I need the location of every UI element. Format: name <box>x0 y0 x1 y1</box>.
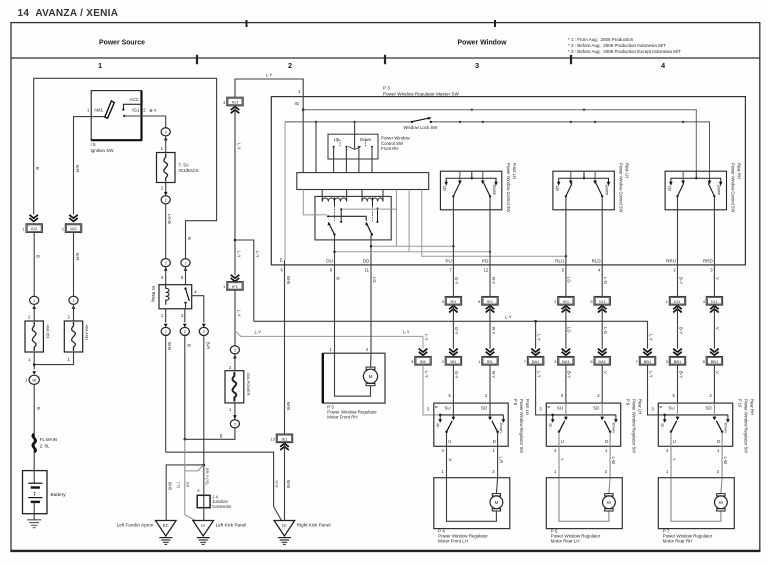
connector chevron <box>562 306 571 309</box>
svg-text:2: 2 <box>184 261 186 265</box>
wire bypass *2 <box>185 465 204 471</box>
legs to rail <box>333 148 335 173</box>
svg-text:B: B <box>220 434 223 439</box>
svg-text:L-O: L-O <box>603 277 608 285</box>
connector circle 2 coil <box>161 259 170 267</box>
output wires <box>558 432 560 478</box>
connector 13 IE1 <box>276 434 292 443</box>
svg-text:P 9: P 9 <box>626 399 631 406</box>
svg-text:B-R: B-R <box>205 342 210 349</box>
battery cells <box>33 471 35 484</box>
svg-text:Rear RH: Rear RH <box>750 399 755 415</box>
wire B-Y <box>677 265 679 297</box>
svg-text:L-W: L-W <box>611 457 616 465</box>
svg-text:M: M <box>607 500 611 505</box>
svg-text:W-B: W-B <box>286 276 291 284</box>
connector 3 BA1 <box>558 357 574 366</box>
wire L-Y below <box>535 365 537 403</box>
svg-text:BA1: BA1 <box>532 359 540 364</box>
svg-text:IE1: IE1 <box>281 436 288 441</box>
connector chevron below IG1 <box>231 107 240 110</box>
svg-text:B-Y: B-Y <box>150 108 157 113</box>
wire G-Y below <box>452 365 454 403</box>
connector 1 IG1 <box>669 297 685 306</box>
svg-text:30A POWER: 30A POWER <box>246 373 251 396</box>
blades <box>453 183 459 196</box>
svg-text:2: 2 <box>165 330 167 334</box>
svg-text:R-Y: R-Y <box>491 277 496 284</box>
connector chevron into fuse ID2 no1 <box>29 215 38 218</box>
contact blades <box>348 146 354 149</box>
svg-text:Up: Up <box>436 423 441 429</box>
svg-text:L-Y: L-Y <box>255 330 262 335</box>
svg-text:Rear LH: Rear LH <box>625 163 630 178</box>
svg-text:11: 11 <box>365 268 370 273</box>
svg-text:IA: IA <box>201 523 205 528</box>
relay IG Relay box <box>159 285 192 309</box>
connector circle 2 <box>230 420 239 428</box>
motor inner wires <box>671 478 721 522</box>
cross line <box>559 178 609 184</box>
svg-text:IG1: IG1 <box>599 299 606 304</box>
wire join 40A outputs <box>33 352 35 370</box>
svg-text:* 3 : Before Aug. 2006 Produc: * 3 : Before Aug. 2006 Production Except… <box>568 49 681 54</box>
wire L-Y down <box>234 106 236 275</box>
motor symbol M <box>605 494 613 496</box>
relay contact <box>184 287 186 289</box>
svg-text:Up: Up <box>667 186 672 192</box>
wire AM1 feed from ignition <box>74 117 105 215</box>
svg-text:IG1: IG1 <box>232 100 239 105</box>
svg-text:Power Window Control SW: Power Window Control SW <box>506 163 511 213</box>
SU SD wires with arrows <box>452 403 454 418</box>
junction connector J4 <box>197 495 210 507</box>
ignition switch I5 box <box>91 91 141 141</box>
motor inner wires <box>559 478 609 522</box>
output wires <box>565 196 567 265</box>
connector circle 2 W-B <box>161 327 170 335</box>
connector 3 BB1 <box>669 357 685 366</box>
fuse 7.5A IG1/BACK <box>157 153 176 183</box>
SU SD wires with arrows <box>565 403 567 418</box>
wire L-Y gray to IB1 <box>422 336 424 348</box>
svg-text:7. 5A: 7. 5A <box>179 163 189 168</box>
svg-text:BB1: BB1 <box>711 359 719 364</box>
svg-text:L-Y: L-Y <box>536 371 541 378</box>
svg-text:L-Y: L-Y <box>648 334 653 341</box>
svg-text:V: V <box>603 371 608 374</box>
blades <box>566 183 572 196</box>
feed arrows <box>32 305 36 309</box>
svg-text:LG: LG <box>372 277 377 283</box>
connector chevron <box>598 349 607 352</box>
output wires <box>670 432 672 478</box>
feed arrow <box>233 415 237 419</box>
connector chevron <box>531 349 540 352</box>
wire L-Y elbow into P9 <box>536 402 553 415</box>
svg-text:Front LH: Front LH <box>525 399 530 415</box>
svg-text:M: M <box>495 500 499 505</box>
svg-text:SD: SD <box>481 405 488 410</box>
svg-text:IG1: IG1 <box>711 299 718 304</box>
blades <box>678 183 684 196</box>
connector circle 2 <box>230 346 239 354</box>
svg-text:1: 1 <box>33 299 35 303</box>
fuse 40A ID1 <box>25 321 43 352</box>
svg-text:D: D <box>717 439 720 444</box>
wire L-O below <box>601 365 603 403</box>
svg-text:3: 3 <box>475 61 479 70</box>
leg from bus B to rail <box>315 122 317 173</box>
svg-text:ID2: ID2 <box>31 226 38 231</box>
svg-text:EC: EC <box>163 523 169 528</box>
connector circle SB <box>29 375 39 384</box>
svg-text:L-Y: L-Y <box>266 72 273 77</box>
connector chevron <box>710 306 719 309</box>
svg-text:IE1: IE1 <box>487 299 494 304</box>
fusible link FL MAIN 2.0L <box>33 434 36 452</box>
svg-text:W-B: W-B <box>286 480 291 488</box>
svg-text:E: E <box>280 258 283 263</box>
svg-text:G-Y: G-Y <box>454 371 459 379</box>
svg-text:BA1: BA1 <box>562 359 570 364</box>
wire L-Y riser to window rail <box>235 240 254 321</box>
wire to EC ground <box>166 465 204 521</box>
svg-text:M: M <box>369 374 373 379</box>
gray mesh to output wires <box>303 190 327 215</box>
wire E gray inside <box>284 122 286 260</box>
output wires <box>677 196 679 265</box>
svg-text:W-B: W-B <box>167 342 172 350</box>
wire V <box>713 265 715 297</box>
svg-text:Connector: Connector <box>212 504 232 509</box>
svg-text:Motor Front RH: Motor Front RH <box>327 415 357 420</box>
svg-text:SU: SU <box>668 405 674 410</box>
svg-text:Down: Down <box>499 423 504 433</box>
svg-text:B-Y: B-Y <box>567 371 572 378</box>
wire L-Y dark rail <box>254 321 648 348</box>
svg-text:Up: Up <box>443 186 448 192</box>
connector circle 2 contact <box>181 259 190 267</box>
bus line A <box>303 110 696 172</box>
wire IG inside <box>302 97 304 173</box>
svg-text:L-Y: L-Y <box>424 371 429 378</box>
svg-text:ID2: ID2 <box>70 226 77 231</box>
svg-text:2: 2 <box>203 330 205 334</box>
wire common feed <box>354 122 356 149</box>
relay coil down <box>361 190 363 202</box>
rail stubs Up Down <box>552 415 554 420</box>
svg-text:Down: Down <box>605 185 610 196</box>
svg-text:B: B <box>35 167 40 170</box>
svg-text:SU: SU <box>557 405 563 410</box>
connector 2 ID2 <box>65 224 81 233</box>
svg-text:BR-Y (*2): BR-Y (*2) <box>205 468 210 485</box>
svg-text:Front RH: Front RH <box>381 146 398 151</box>
connector 7 BB1 <box>639 357 655 366</box>
motor symbol M <box>717 494 725 496</box>
svg-text:L-W: L-W <box>723 457 728 465</box>
relay assembly box <box>315 196 391 240</box>
svg-text:L-Y: L-Y <box>505 315 512 320</box>
svg-text:Down: Down <box>492 185 497 196</box>
svg-text:B: B <box>434 406 439 409</box>
svg-text:B: B <box>547 406 552 409</box>
entry wires <box>682 171 684 183</box>
svg-text:Power Window Regulator SW: Power Window Regulator SW <box>632 399 637 453</box>
connector 7 BA1 <box>527 357 543 366</box>
svg-text:Up: Up <box>334 137 340 142</box>
svg-text:AM1: AM1 <box>94 108 104 113</box>
contact blades <box>559 421 565 432</box>
svg-text:IE1: IE1 <box>450 299 457 304</box>
feed arrows into circles <box>164 324 168 328</box>
connector chevron <box>449 349 458 352</box>
svg-text:B-Y: B-Y <box>678 327 683 334</box>
svg-text:Window Lock SW: Window Lock SW <box>404 125 439 130</box>
connector 8 BB1 <box>706 357 722 366</box>
svg-text:L-Y: L-Y <box>236 310 241 317</box>
svg-text:V: V <box>715 277 720 280</box>
svg-text:* 2 : Before Aug. 2006 Produc: * 2 : Before Aug. 2006 Production Indone… <box>568 43 666 48</box>
svg-text:BR: BR <box>186 482 191 488</box>
wire L-O <box>601 265 603 297</box>
connector circle 2 B <box>180 327 189 335</box>
inner rail <box>440 414 503 416</box>
svg-text:PD: PD <box>482 259 489 264</box>
svg-text:* 1 : From Aug. 2006 Producti: * 1 : From Aug. 2006 Production <box>568 37 634 42</box>
ground IC Right Kick Panel <box>274 521 295 537</box>
relay coil <box>166 285 169 305</box>
motor P 6 box <box>546 478 622 529</box>
svg-text:RLD: RLD <box>592 259 602 264</box>
svg-text:B: B <box>36 407 41 410</box>
wire V below <box>713 365 715 403</box>
bus line B <box>285 121 412 123</box>
junction node L-Y branch <box>234 239 237 242</box>
svg-text:40A ID1: 40A ID1 <box>45 325 50 340</box>
svg-text:2: 2 <box>165 261 167 265</box>
wire LG-B <box>165 204 167 258</box>
fuse 40A AM1 <box>64 321 82 352</box>
motor symbol M <box>366 367 375 369</box>
svg-text:2: 2 <box>184 330 186 334</box>
svg-text:Control SW: Control SW <box>381 141 404 146</box>
control switch Front LH box <box>440 171 501 210</box>
connector 1 ID2 <box>26 224 42 233</box>
svg-text:Power Source: Power Source <box>99 40 145 47</box>
svg-text:I 5: I 5 <box>91 142 97 147</box>
svg-text:Down: Down <box>360 137 372 142</box>
wire B below ID2 <box>33 232 35 295</box>
svg-text:Left Kick Panel: Left Kick Panel <box>216 523 247 528</box>
svg-text:FL MAIN: FL MAIN <box>40 437 57 442</box>
svg-text:B-Y: B-Y <box>678 371 683 378</box>
wire LG <box>565 265 567 297</box>
relay blades <box>328 222 334 234</box>
wire R-Y <box>489 265 491 297</box>
rail stubs Up Down <box>439 415 441 420</box>
regulator switch P 8 box <box>434 403 508 446</box>
output wires <box>446 432 448 478</box>
svg-text:IG1: IG1 <box>674 299 681 304</box>
connector chevron below IE1 <box>280 443 289 446</box>
connector circle 2 <box>161 196 170 204</box>
svg-text:SD: SD <box>593 405 600 410</box>
svg-text:L-Y: L-Y <box>536 334 541 341</box>
svg-text:L-Y: L-Y <box>424 334 429 341</box>
svg-text:Power Window: Power Window <box>381 135 411 140</box>
feed arrow <box>164 137 168 141</box>
svg-text:A: A <box>197 488 200 493</box>
dashed links <box>339 140 341 147</box>
wire G-Y <box>452 265 454 297</box>
entry wires <box>459 171 461 183</box>
svg-text:Down: Down <box>612 423 617 433</box>
wire B to junction <box>185 428 235 439</box>
battery box <box>23 471 48 514</box>
wire L-Y top <box>235 79 303 97</box>
svg-text:L-O: L-O <box>603 327 608 335</box>
ground IA Left Kick Panel <box>193 521 214 537</box>
wire L-Y elbow into P8 <box>423 402 440 415</box>
connector 1 IF1 <box>227 282 243 291</box>
connector chevron <box>710 349 719 352</box>
wire BR-Y through J4 <box>203 336 205 521</box>
ground below battery <box>27 519 41 521</box>
svg-text:IG: IG <box>295 101 300 106</box>
rail stubs Up Down <box>664 415 666 420</box>
svg-text:P 10: P 10 <box>738 399 743 408</box>
ground EC Left Fender Apron <box>156 521 177 537</box>
svg-text:Up: Up <box>661 423 666 429</box>
contact link line <box>328 216 366 221</box>
connector 8 IE1 <box>482 297 498 306</box>
svg-text:B-Y: B-Y <box>678 277 683 284</box>
feed arrow <box>164 192 168 196</box>
svg-text:SU: SU <box>444 405 450 410</box>
wire L-Y gray rail branch <box>235 331 423 337</box>
ignition IG1 contact <box>123 115 125 117</box>
svg-text:Left Fender Apron: Left Fender Apron <box>117 523 154 528</box>
motor P5 box <box>323 353 385 403</box>
svg-text:B-R: B-R <box>75 165 80 172</box>
svg-text:IB1: IB1 <box>487 359 494 364</box>
inner rail <box>665 414 728 416</box>
relay coil up <box>321 190 323 202</box>
column ticks <box>196 55 198 64</box>
connector circle 2 <box>161 128 170 136</box>
connector 5 IB1 <box>415 357 431 366</box>
svg-text:IG1: IG1 <box>132 108 140 113</box>
svg-text:B-R: B-R <box>75 253 80 260</box>
svg-text:G-Y: G-Y <box>454 277 459 285</box>
svg-text:1: 1 <box>98 61 102 70</box>
svg-text:B: B <box>659 406 664 409</box>
contact blades <box>447 421 453 432</box>
wire B to battery <box>33 384 35 470</box>
connector 4 IG1 <box>706 297 722 306</box>
svg-text:Right Kick Panel: Right Kick Panel <box>297 523 331 528</box>
svg-text:Motor Rear RH: Motor Rear RH <box>663 538 693 543</box>
connector circle 2 BR <box>199 327 208 335</box>
feed arrow <box>233 355 237 359</box>
svg-text:RRU: RRU <box>666 259 676 264</box>
wire DD <box>370 265 372 353</box>
svg-text:V: V <box>715 371 720 374</box>
svg-text:W-B: W-B <box>167 482 172 490</box>
wire DD <box>370 235 372 266</box>
connector 2 IB1 <box>445 357 461 366</box>
svg-text:P: P <box>447 459 452 462</box>
svg-text:LG-B: LG-B <box>167 214 172 224</box>
svg-text:Power Window: Power Window <box>458 40 508 47</box>
feed arrow down <box>32 371 36 375</box>
svg-text:Battery: Battery <box>51 492 67 498</box>
svg-text:Rear RH: Rear RH <box>737 163 742 179</box>
connector chevron <box>643 349 652 352</box>
master switch P3 box <box>271 97 745 265</box>
svg-text:R-Y: R-Y <box>491 327 496 334</box>
svg-text:Up: Up <box>555 186 560 192</box>
svg-text:13: 13 <box>270 437 275 442</box>
svg-text:D: D <box>605 439 608 444</box>
wire B down <box>184 334 186 439</box>
svg-text:2: 2 <box>288 61 292 70</box>
ignition lever <box>105 101 115 118</box>
connector chevron into IF1 <box>231 275 240 278</box>
connector chevron into fuse ID2 no2 <box>69 215 78 218</box>
svg-text:B: B <box>36 255 41 258</box>
svg-text:SD: SD <box>705 405 712 410</box>
svg-text:P 8: P 8 <box>513 399 518 406</box>
contact posts <box>340 209 342 222</box>
svg-text:IB1: IB1 <box>450 359 457 364</box>
svg-text:IF1: IF1 <box>232 284 239 289</box>
svg-text:Rear LH: Rear LH <box>638 399 643 414</box>
svg-text:2. 0L: 2. 0L <box>40 443 50 448</box>
svg-text:Power Window Control SW: Power Window Control SW <box>619 163 624 213</box>
svg-text:1: 1 <box>72 299 74 303</box>
svg-text:B: B <box>336 277 341 280</box>
svg-text:RRD: RRD <box>703 259 713 264</box>
svg-text:2: 2 <box>165 130 167 134</box>
svg-text:12: 12 <box>484 268 489 273</box>
svg-text:LG: LG <box>567 327 572 333</box>
svg-text:Front LH: Front LH <box>512 163 517 179</box>
wire B-R below ID2 <box>73 232 75 295</box>
connector chevron <box>673 306 682 309</box>
svg-text:L-R: L-R <box>498 457 503 464</box>
svg-text:G-Y: G-Y <box>454 327 459 335</box>
window lock switch <box>411 121 413 123</box>
svg-text:IG1: IG1 <box>563 299 570 304</box>
contact blades <box>671 421 677 432</box>
svg-text:P 3: P 3 <box>383 86 390 91</box>
control switch Rear RH box <box>665 171 726 210</box>
svg-text:Power Window Regulator Master: Power Window Regulator Master SW <box>383 91 459 96</box>
wire L-Y below IF1 <box>234 290 236 345</box>
svg-text:Down: Down <box>724 423 729 433</box>
wire L-Y to BA1 <box>535 321 537 348</box>
svg-text:2: 2 <box>234 348 236 352</box>
connector chevron <box>673 349 682 352</box>
connector 2 IG1 <box>558 297 574 306</box>
ignition ACC contact <box>123 104 141 109</box>
top frame fold ticks <box>246 20 248 27</box>
svg-text:Motor Front LH: Motor Front LH <box>438 538 468 543</box>
svg-text:W-B: W-B <box>286 402 291 410</box>
